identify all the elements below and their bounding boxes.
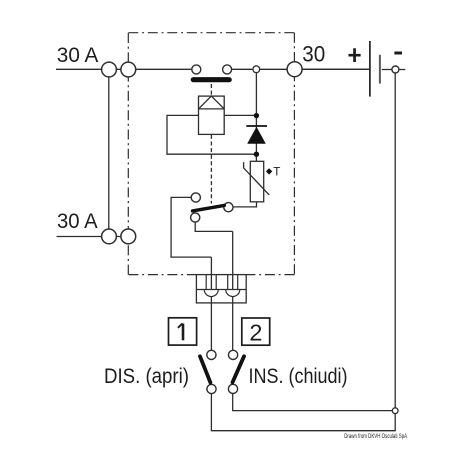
svg-text:30 A: 30 A (57, 209, 98, 233)
thermistor R1 body (250, 161, 263, 202)
svg-text:30 A: 30 A (57, 43, 99, 67)
junction node top (254, 113, 259, 118)
diode D1 triangle (247, 127, 266, 144)
svg-text:INS. (chiudi): INS. (chiudi) (249, 365, 348, 388)
junction node bottom (254, 152, 259, 157)
connector block body (196, 275, 246, 303)
connector pin 2 receptacle lines (228, 275, 238, 290)
wire: battery + lead (302, 68, 369, 70)
wire: INS switch bottom to negative node (233, 394, 396, 411)
node: coil supply terminal on rail (253, 66, 260, 73)
diode D1 cathode bar (246, 125, 267, 127)
wire: battery - lead and stub (382, 69, 406, 71)
svg-text:Drawn from DKVH Osculati SpA: Drawn from DKVH Osculati SpA (344, 433, 407, 440)
wire: diode branch vertical (terminal 30 node down to varistor) (255, 73, 257, 162)
connector block inner line (196, 289, 246, 291)
thermistor R1 diagonal (244, 162, 270, 195)
switch INS blade (233, 356, 245, 382)
svg-text:2: 2 (249, 319, 262, 345)
relay unit enclosure (dash-dot box) (128, 33, 294, 275)
wire: pin 2 column down to switch INS (232, 231, 234, 350)
label plus (349, 48, 361, 62)
mechanical link bar-to-coil (dashed) (210, 84, 212, 96)
fuse F2 30A circle pair (102, 229, 117, 244)
battery B1 negative plate (379, 55, 381, 84)
wire: DIS switch bottom to negative bus (211, 394, 395, 431)
relay coil K1 (199, 96, 225, 134)
thermistor temperature diamond (266, 168, 272, 174)
switch INS terminals (229, 350, 238, 359)
fuse F1 30A circle pair (102, 62, 117, 77)
battery negative terminal node (392, 66, 399, 73)
wire: internal switch common to pin 2 (195, 222, 233, 232)
relay main contact movable bar (193, 77, 229, 82)
wire: relay coil right lead to top junction (224, 114, 256, 116)
wire: second row feed (57, 236, 134, 238)
connector pin 2 socket bowl (226, 290, 240, 297)
wire: varistor bottom to internal switch closed contact (233, 202, 257, 207)
terminal label box 2 (242, 318, 270, 345)
wire: top rail right (contact to battery +) (232, 68, 370, 70)
terminal label box 1 (169, 318, 197, 345)
switch DIS terminals (207, 350, 216, 359)
battery B1 positive plate (369, 41, 371, 97)
connector pin 1 socket bowl (204, 290, 218, 297)
connector pin 1 receptacle lines (206, 275, 216, 290)
internal auxiliary switch blade (193, 205, 225, 211)
svg-text:30: 30 (302, 42, 325, 67)
wire: top rail left (supply to fuses and fixed contact) (56, 68, 192, 70)
mechanical link coil-to-switch (dashed) (210, 135, 212, 204)
label minus (394, 52, 402, 55)
relay main contact fixed terminals (192, 65, 201, 74)
wire: relay coil left loop to bottom junction (167, 115, 256, 154)
svg-text:T: T (273, 165, 280, 178)
wire: battery negative vertical bus (394, 73, 396, 408)
terminal 30 circle (287, 62, 302, 77)
internal auxiliary switch contacts (191, 193, 200, 202)
svg-text:DIS. (apri): DIS. (apri) (104, 365, 189, 388)
wire: pin 1 column down to switch DIS (210, 257, 212, 350)
wire: internal switch upper contact to pin 1 (171, 197, 211, 257)
node: negative bus junction (392, 408, 398, 414)
switch DIS blade (200, 356, 210, 382)
wire: vertical link between fuse rows (108, 69, 110, 236)
